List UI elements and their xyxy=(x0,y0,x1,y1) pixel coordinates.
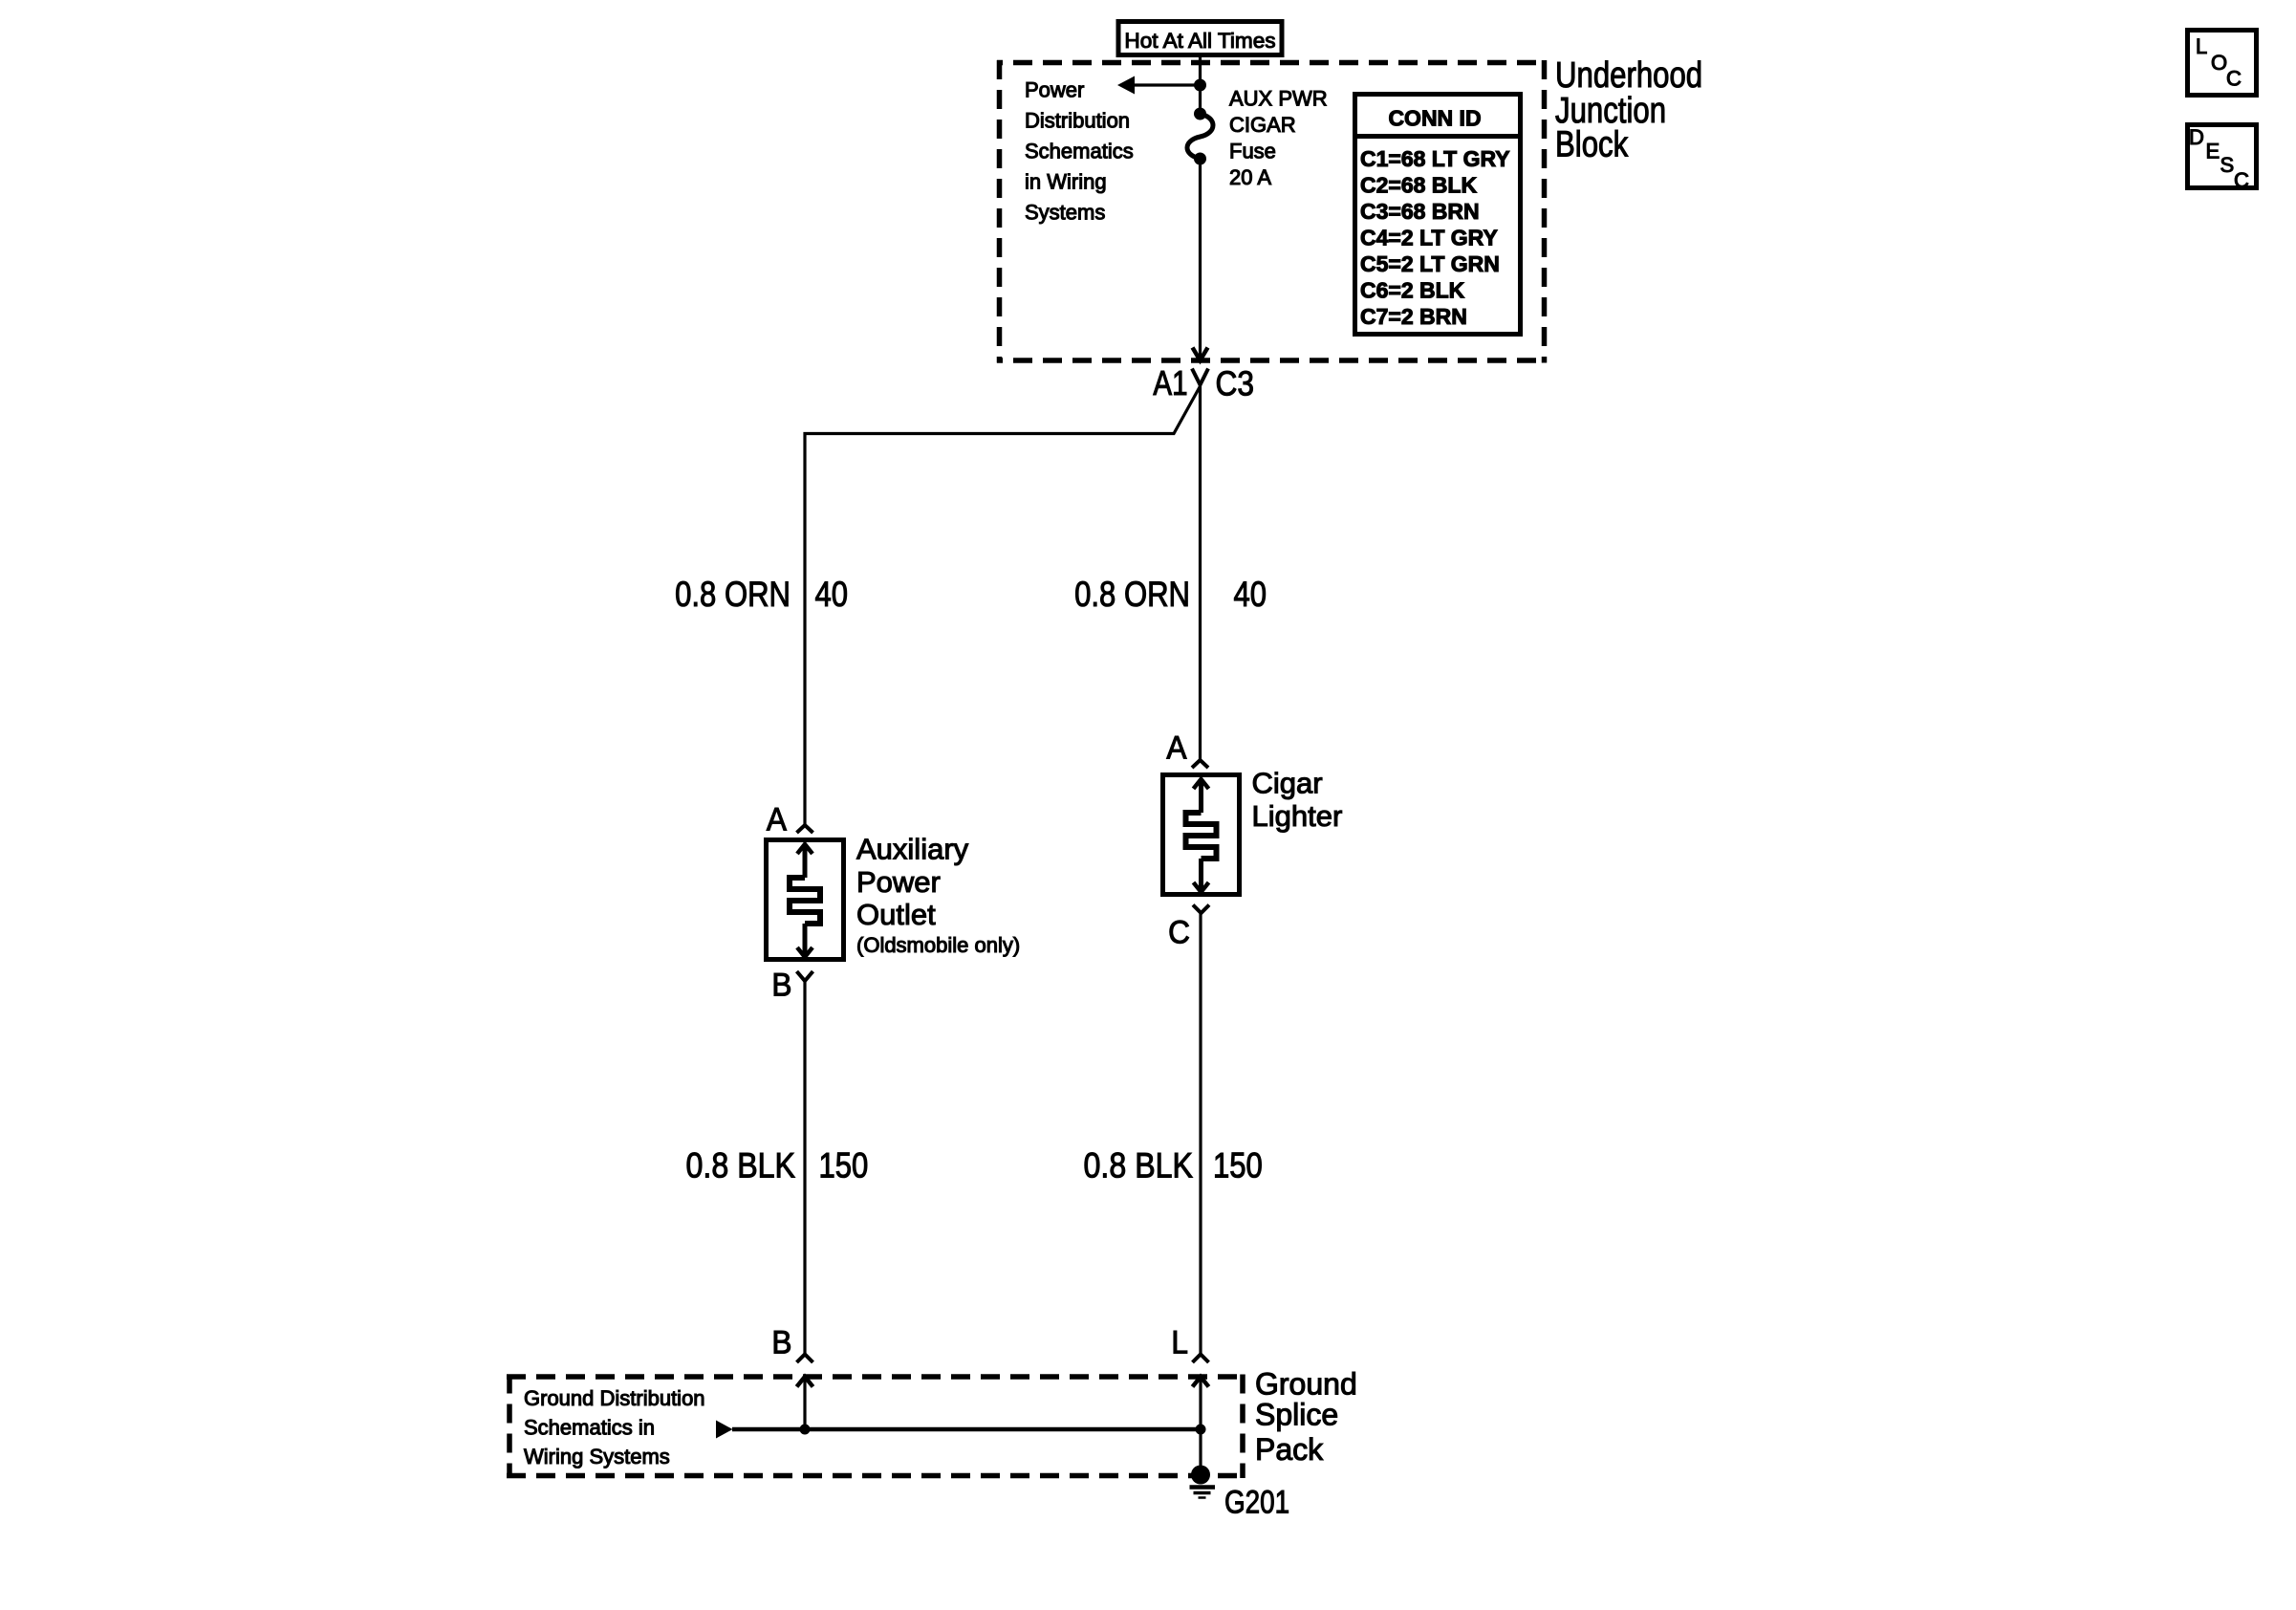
svg-text:C4=2 LT GRY: C4=2 LT GRY xyxy=(1360,226,1498,250)
svg-text:Hot At All Times: Hot At All Times xyxy=(1124,29,1275,53)
svg-text:40: 40 xyxy=(1234,576,1267,615)
arrowhead of wire leaving junction block at A1 xyxy=(1193,348,1208,361)
splice junction dot B xyxy=(800,1425,811,1435)
arrowhead from ground distribution schematics xyxy=(716,1421,733,1439)
svg-text:Splice: Splice xyxy=(1255,1398,1338,1432)
connector female V at C3 xyxy=(1192,369,1208,385)
svg-text:Schematics in: Schematics in xyxy=(524,1416,655,1440)
node Underhood Junction Block label xyxy=(1555,55,1702,164)
ground G201 label xyxy=(1224,1484,1289,1520)
svg-text:Pack: Pack xyxy=(1255,1432,1324,1467)
svg-text:C3: C3 xyxy=(1216,365,1254,403)
svg-text:G201: G201 xyxy=(1224,1484,1289,1520)
svg-text:C5=2 LT GRN: C5=2 LT GRN xyxy=(1360,251,1500,276)
pin A label cigar lighter xyxy=(1166,729,1186,765)
wire from aux outlet pin B down to ground xyxy=(803,981,806,1355)
node Auxiliary Power Outlet label xyxy=(856,833,1020,958)
pin A label auxiliary power outlet xyxy=(767,800,787,837)
svg-text:C1=68 LT GRY: C1=68 LT GRY xyxy=(1360,146,1510,171)
node Cigar Lighter label xyxy=(1252,767,1343,834)
node Ground Splice Pack label xyxy=(1255,1367,1357,1468)
svg-text:A1: A1 xyxy=(1153,363,1187,402)
svg-text:Outlet: Outlet xyxy=(856,898,936,931)
aux outlet heater element xyxy=(790,844,820,957)
svg-text:0.8 ORN: 0.8 ORN xyxy=(675,576,791,615)
svg-text:20 A: 20 A xyxy=(1229,165,1271,189)
ground G201 terminal dot xyxy=(1191,1466,1210,1485)
ground splice bus wire xyxy=(732,1427,1201,1432)
circuit number 40 right xyxy=(1234,576,1267,615)
arrowhead pointing left to power distribution xyxy=(1117,76,1135,95)
svg-text:Power: Power xyxy=(1025,78,1084,102)
svg-text:0.8 BLK: 0.8 BLK xyxy=(1084,1146,1193,1186)
svg-text:(Oldsmobile only): (Oldsmobile only) xyxy=(856,933,1020,957)
wire from cigar lighter pin C down to ground xyxy=(1199,913,1202,1355)
svg-text:B: B xyxy=(771,1323,791,1360)
cigar lighter heater element xyxy=(1186,779,1217,892)
svg-text:Cigar: Cigar xyxy=(1252,767,1323,800)
svg-text:O: O xyxy=(2211,51,2227,75)
svg-text:S: S xyxy=(2220,153,2235,177)
svg-text:CONN ID: CONN ID xyxy=(1388,106,1481,131)
auxiliary power outlet component box xyxy=(767,840,844,960)
svg-text:C6=2 BLK: C6=2 BLK xyxy=(1360,278,1465,303)
cigar lighter component box xyxy=(1163,775,1240,895)
node AUX PWR CIGAR Fuse 20 A label xyxy=(1229,87,1328,190)
svg-text:Ground: Ground xyxy=(1255,1367,1357,1402)
circuit number 150 right xyxy=(1213,1146,1263,1186)
svg-text:Block: Block xyxy=(1555,125,1629,165)
svg-text:C: C xyxy=(1168,913,1190,949)
wire from C3 down to cigar lighter branch xyxy=(1199,385,1202,761)
ground symbol hatch xyxy=(1190,1488,1216,1498)
svg-text:A: A xyxy=(1166,729,1186,765)
splice arrow up at B xyxy=(797,1377,813,1429)
svg-text:Power: Power xyxy=(856,865,941,899)
node Power Distribution reference note xyxy=(1025,78,1134,225)
svg-text:CIGAR: CIGAR xyxy=(1229,113,1296,137)
svg-text:B: B xyxy=(771,966,791,1002)
svg-text:L: L xyxy=(2196,34,2207,58)
svg-text:Distribution: Distribution xyxy=(1025,109,1130,133)
svg-text:C2=68 BLK: C2=68 BLK xyxy=(1360,173,1477,198)
svg-text:C: C xyxy=(2226,67,2242,91)
junction dot to power distribution arrow xyxy=(1194,79,1206,92)
wire label 0.8 BLK left xyxy=(686,1146,795,1186)
connector female V at splice pack pin L xyxy=(1193,1355,1209,1363)
svg-text:150: 150 xyxy=(819,1146,869,1186)
pin A1 label xyxy=(1153,363,1187,402)
pin C label cigar lighter xyxy=(1168,913,1190,949)
wire label 0.8 ORN left xyxy=(675,576,791,615)
svg-text:Wiring Systems: Wiring Systems xyxy=(524,1445,670,1469)
svg-text:Fuse: Fuse xyxy=(1229,140,1276,163)
connector female V at cigar lighter pin A xyxy=(1192,760,1208,768)
svg-text:Schematics: Schematics xyxy=(1025,140,1134,163)
connector female V at aux outlet pin B xyxy=(797,971,813,981)
circuit number 150 left xyxy=(819,1146,869,1186)
svg-text:A: A xyxy=(767,800,787,837)
svg-text:0.8 ORN: 0.8 ORN xyxy=(1074,576,1190,615)
connector female V at cigar lighter pin C xyxy=(1193,905,1209,914)
connector female V at splice pack pin B xyxy=(797,1355,813,1363)
svg-text:E: E xyxy=(2206,140,2220,163)
pin C3 label xyxy=(1216,365,1254,403)
pin L label at ground splice pack xyxy=(1171,1323,1188,1360)
splice arrow up at L xyxy=(1193,1377,1209,1429)
svg-text:150: 150 xyxy=(1213,1146,1263,1186)
wire from splice down to ground G201 xyxy=(1199,1429,1202,1472)
svg-text:Auxiliary: Auxiliary xyxy=(856,833,969,866)
wire branch to power distribution schematics xyxy=(1134,83,1201,86)
svg-text:L: L xyxy=(1171,1323,1188,1360)
svg-text:AUX PWR: AUX PWR xyxy=(1229,87,1328,111)
LOC reference box xyxy=(2188,31,2257,96)
pin B label at ground splice pack xyxy=(771,1323,791,1360)
CONN ID table xyxy=(1353,95,1522,335)
fuse terminal dot top xyxy=(1194,108,1206,120)
wire branch to auxiliary power outlet xyxy=(805,386,1201,825)
fuse terminal dot bottom xyxy=(1194,153,1206,165)
svg-text:Underhood: Underhood xyxy=(1555,55,1702,96)
DESC reference box xyxy=(2188,125,2257,193)
svg-text:Lighter: Lighter xyxy=(1252,799,1343,833)
svg-text:0.8 BLK: 0.8 BLK xyxy=(686,1146,795,1186)
svg-text:C: C xyxy=(2234,168,2249,192)
circuit number 40 left xyxy=(815,576,849,615)
svg-text:40: 40 xyxy=(815,576,849,615)
wire feed from Hot At All Times into fuse xyxy=(1199,56,1202,114)
node Ground Distribution reference note xyxy=(524,1386,705,1469)
connector female V at aux outlet pin A xyxy=(797,825,813,833)
wire label 0.8 BLK right xyxy=(1084,1146,1193,1186)
node Hot At All Times power feed box xyxy=(1118,22,1282,55)
svg-text:D: D xyxy=(2189,125,2204,149)
svg-text:Systems: Systems xyxy=(1025,201,1105,225)
svg-text:C3=68 BRN: C3=68 BRN xyxy=(1360,199,1480,224)
splice junction dot L xyxy=(1196,1425,1206,1435)
wire from fuse down to connector A1/C3 xyxy=(1199,159,1202,359)
svg-text:Ground Distribution: Ground Distribution xyxy=(524,1386,705,1410)
svg-text:C7=2 BRN: C7=2 BRN xyxy=(1360,304,1467,329)
wire label 0.8 ORN right xyxy=(1074,576,1190,615)
Underhood Junction Block dashed boundary xyxy=(997,60,1547,363)
fuse AUX PWR CIGAR 20A element (S-curve) xyxy=(1187,114,1213,159)
svg-text:in Wiring: in Wiring xyxy=(1025,170,1107,194)
Ground Splice Pack dashed boundary xyxy=(507,1375,1245,1479)
pin B label auxiliary power outlet xyxy=(771,966,791,1002)
